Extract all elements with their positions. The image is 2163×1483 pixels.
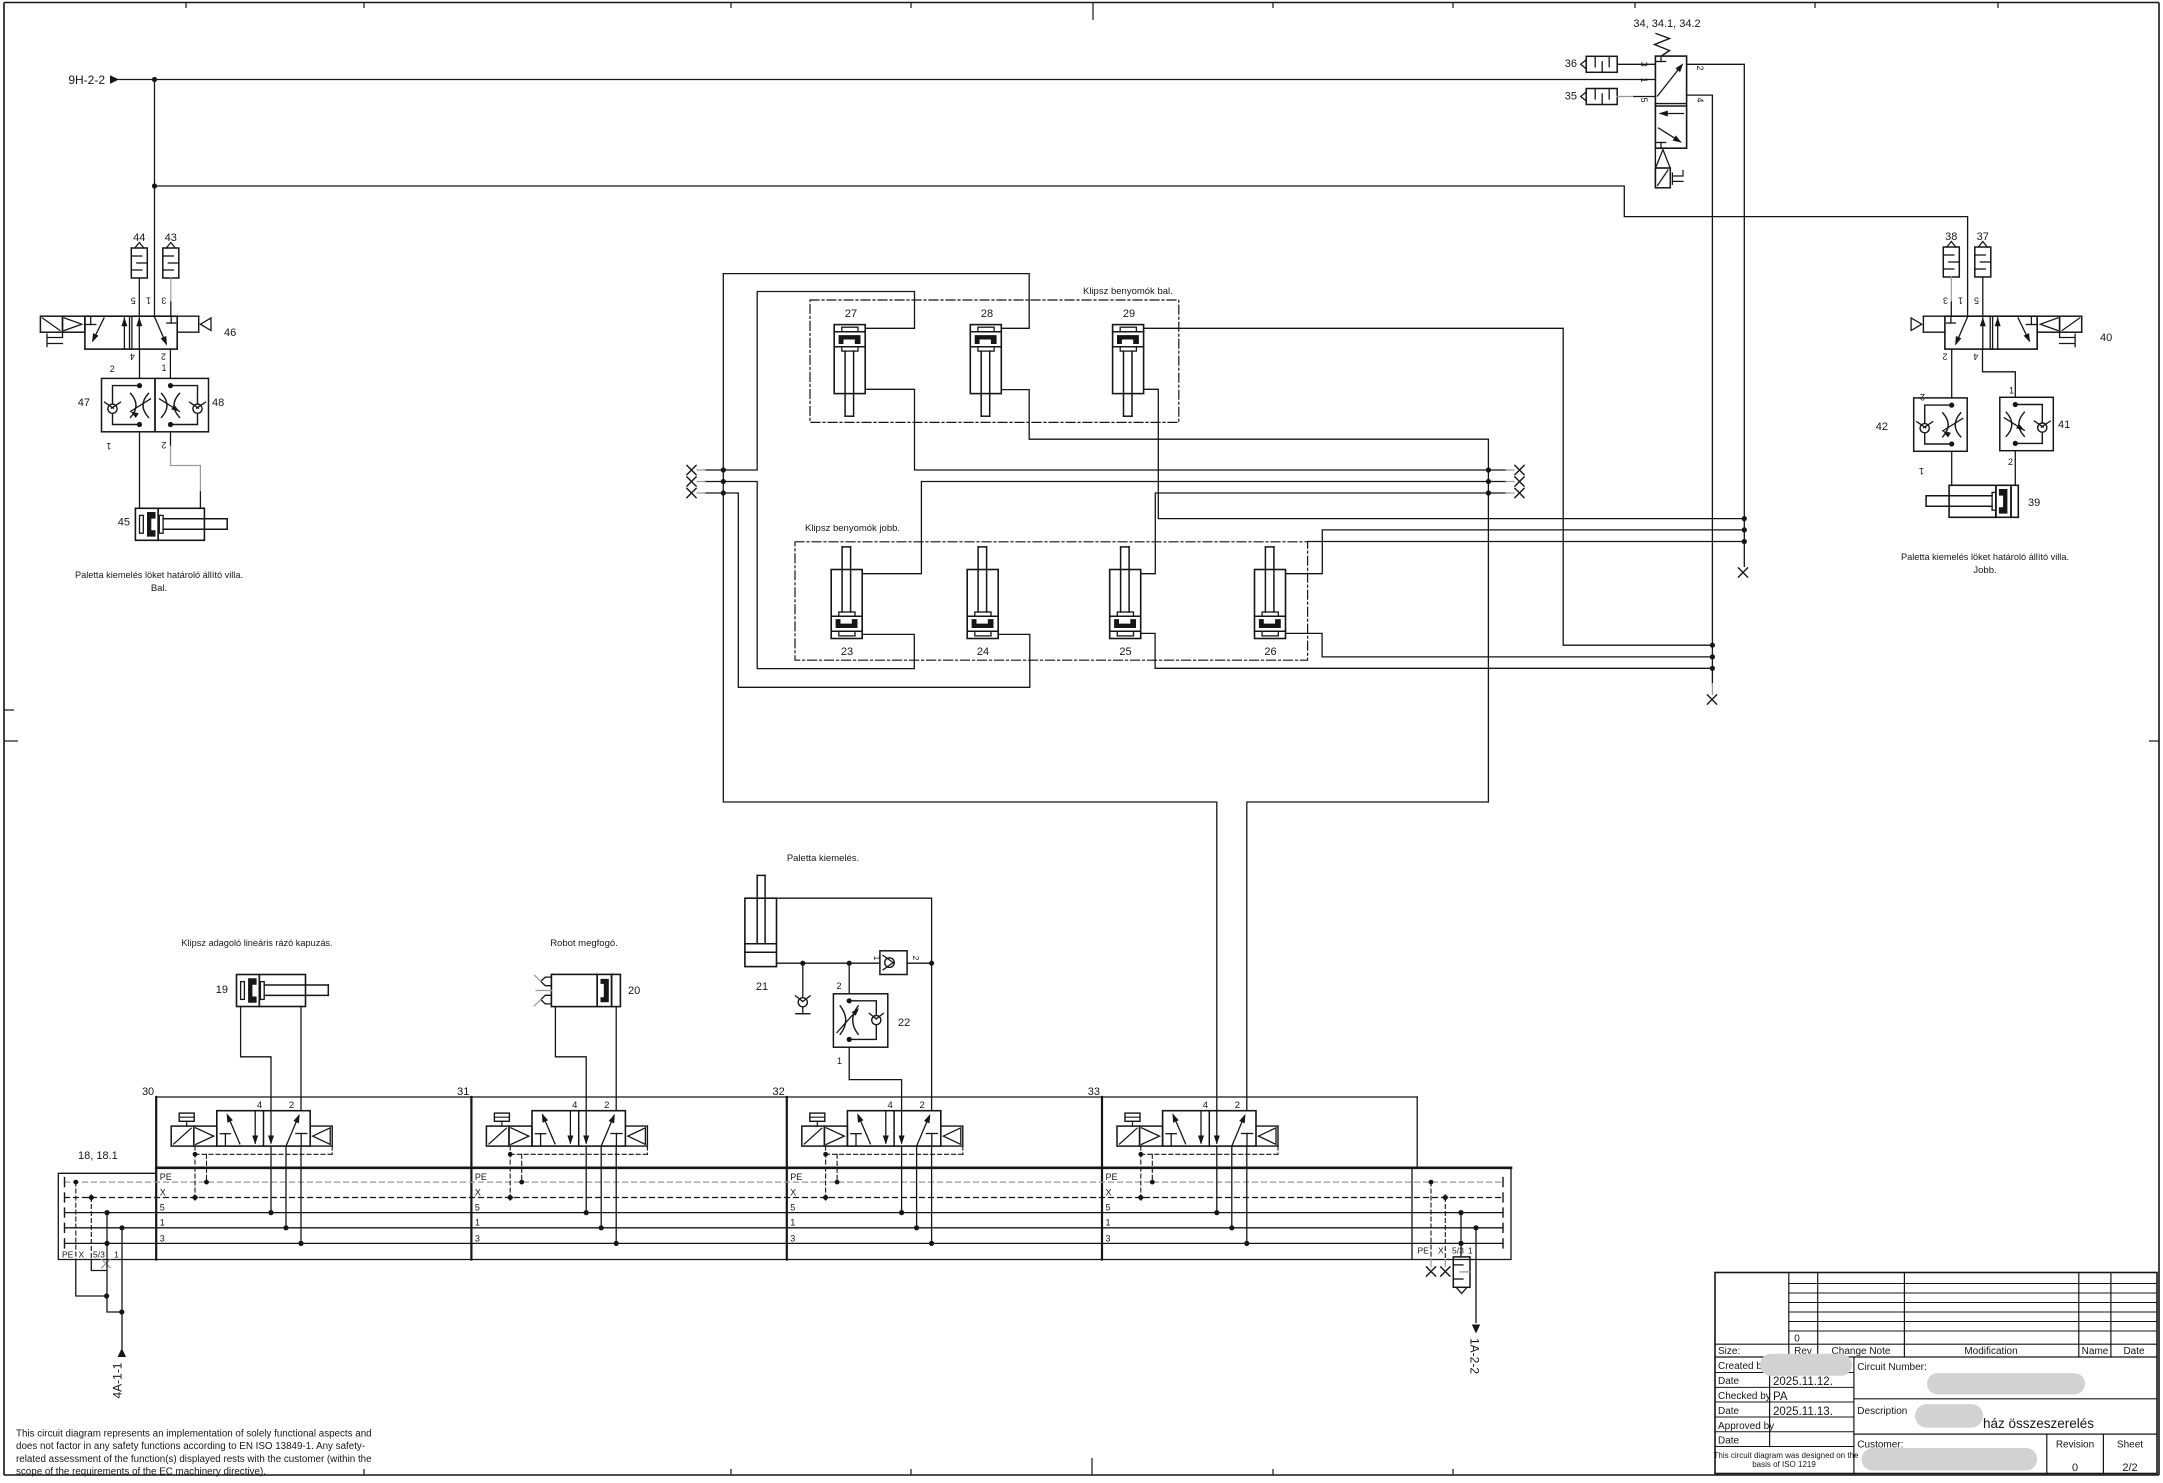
wire cylinder 25 top port to X-row 3	[1141, 493, 1488, 574]
cylinder 24	[967, 570, 998, 639]
svg-text:does not factor in any safety: does not factor in any safety functions …	[16, 1441, 365, 1452]
svg-text:22: 22	[898, 1017, 910, 1029]
wire main supply bus y=79.5	[119, 79, 1655, 81]
svg-text:Paletta kiemelés löket határol: Paletta kiemelés löket határoló állító v…	[75, 570, 243, 580]
svg-text:1: 1	[2009, 386, 2014, 396]
valve to rail drops	[901, 1146, 903, 1213]
svg-text:2025.11.13.: 2025.11.13.	[1773, 1406, 1833, 1418]
svg-text:1: 1	[162, 363, 167, 373]
title block outer	[1715, 1273, 2157, 1474]
svg-text:21: 21	[756, 981, 768, 993]
svg-text:scope of the requirements of t: scope of the requirements of the EC mach…	[16, 1467, 266, 1478]
svg-text:Sheet: Sheet	[2117, 1440, 2143, 1451]
svg-text:5: 5	[475, 1203, 480, 1213]
wire silencer 35 to port 5 (gray)	[1617, 96, 1634, 98]
svg-text:3: 3	[161, 296, 166, 306]
X mark at 5/3 crossing	[102, 1259, 110, 1267]
plug X marks right end	[1426, 1267, 1435, 1276]
svg-text:32: 32	[773, 1086, 785, 1098]
wire cylinder 26 top port	[1286, 530, 1744, 574]
svg-text:Klipsz benyomók jobb.: Klipsz benyomók jobb.	[805, 523, 900, 534]
svg-text:Checked by: Checked by	[1718, 1391, 1771, 1402]
svg-text:31: 31	[457, 1086, 469, 1098]
silencer 38	[1947, 242, 1956, 248]
svg-text:1: 1	[837, 1056, 842, 1066]
svg-text:1: 1	[1919, 466, 1924, 476]
svg-text:X: X	[475, 1187, 481, 1197]
svg-text:39: 39	[2028, 497, 2040, 509]
svg-text:33: 33	[1088, 1086, 1100, 1098]
svg-text:2: 2	[920, 1100, 925, 1111]
wire cylinder 21 top port to valve 32 port 2	[777, 898, 932, 1110]
svg-text:PE: PE	[160, 1172, 172, 1182]
left end 1 drop	[121, 1228, 123, 1260]
valve 46 (5/2 solenoid valve, rotated)	[40, 316, 211, 349]
pilot triangle	[824, 1126, 847, 1146]
wire flow 48 to cylinder 45 rod port (gray elbow)	[170, 432, 172, 446]
wire valve 34 port 4 to junction column x=1712	[1687, 95, 1713, 684]
svg-text:1: 1	[1106, 1218, 1111, 1228]
svg-text:2: 2	[1942, 352, 1947, 362]
svg-text:2: 2	[1920, 392, 1925, 402]
cylinder 45	[135, 508, 158, 540]
svg-text:1: 1	[1958, 296, 1963, 306]
svg-text:Date: Date	[2123, 1346, 2145, 1357]
dash-dot group box Klipsz benyomók jobb	[795, 542, 1308, 660]
cylinder 28	[970, 325, 1001, 394]
pilot dashed lines	[1140, 1146, 1142, 1197]
cylinder 29	[1113, 325, 1144, 394]
wire cylinder 27 top port loop	[723, 292, 914, 471]
svg-text:1: 1	[160, 1218, 165, 1228]
svg-text:0: 0	[2072, 1462, 2078, 1474]
svg-text:2: 2	[161, 440, 166, 450]
svg-text:0: 0	[1794, 1334, 1800, 1345]
arrow 9H-2-2	[110, 75, 119, 83]
flow control valve 22	[848, 963, 850, 994]
svg-text:1: 1	[790, 1218, 795, 1228]
svg-text:2/2: 2/2	[2122, 1462, 2137, 1474]
pilot dashed lines	[825, 1146, 827, 1197]
svg-text:X: X	[1438, 1246, 1444, 1256]
junction	[152, 183, 157, 188]
svg-text:35: 35	[1565, 91, 1577, 103]
svg-text:3: 3	[475, 1233, 480, 1243]
svg-text:PE: PE	[1418, 1246, 1430, 1256]
connection X marks right bus	[1488, 469, 1506, 471]
solenoid	[486, 1126, 509, 1146]
svg-text:44: 44	[133, 232, 145, 244]
connection X marks left bus	[705, 469, 723, 471]
svg-text:27: 27	[845, 308, 857, 320]
manual override	[1125, 1113, 1140, 1121]
svg-text:2: 2	[110, 364, 115, 374]
frame tick marks left/right	[4, 709, 14, 711]
wire silencer 36 to port 3	[1617, 63, 1655, 65]
svg-text:26: 26	[1264, 646, 1276, 658]
exhaust port block	[1256, 1125, 1278, 1127]
wire flow 47 to cylinder 45 cap port	[139, 432, 141, 509]
wire cylinder 21 bottom port	[777, 962, 880, 964]
redaction blobs	[1760, 1354, 1852, 1376]
wire silencer 38 to valve 40 port 3 (gray)	[1950, 277, 1952, 302]
svg-text:3: 3	[160, 1233, 165, 1243]
manifold top bold line	[156, 1167, 1511, 1170]
svg-text:1: 1	[475, 1218, 480, 1228]
svg-text:Revision: Revision	[2056, 1440, 2094, 1451]
svg-text:Klipsz adagoló lineáris rázó k: Klipsz adagoló lineáris rázó kapuzás.	[181, 938, 332, 948]
wire cylinder 19 rod port to valve 30 port 2	[300, 1007, 302, 1111]
svg-text:5: 5	[790, 1203, 795, 1213]
svg-text:2: 2	[836, 981, 841, 991]
plug X below port4 column	[1707, 695, 1716, 704]
inline check valve right of cylinder 21	[880, 951, 907, 975]
svg-text:20: 20	[628, 985, 640, 997]
svg-text:41: 41	[2058, 419, 2070, 431]
wire drop to valve 46 port 1	[154, 80, 156, 317]
silencer 44	[135, 243, 144, 249]
valve cell boxes	[155, 1097, 157, 1260]
wire cylinder 27 bottom port to X-row 1	[866, 389, 1489, 470]
dash-dot group box Klipsz benyomók bal	[810, 300, 1179, 422]
pilot dashed lines	[194, 1146, 196, 1197]
valve to rail drops	[270, 1146, 272, 1213]
svg-text:3: 3	[1639, 62, 1649, 67]
svg-text:Date: Date	[1718, 1436, 1740, 1447]
svg-text:2025.11.12.: 2025.11.12.	[1773, 1376, 1833, 1388]
valve 34 body	[1655, 56, 1686, 148]
wire cylinder 28 bottom port down to valve 33 port 2	[1002, 390, 1489, 1111]
svg-text:29: 29	[1123, 308, 1135, 320]
right end rail junctions	[1458, 1210, 1463, 1215]
wire cylinder 23 bottom port loop	[723, 482, 914, 669]
manual override	[810, 1113, 825, 1121]
svg-text:36: 36	[1565, 58, 1577, 70]
wire valve 22 to valve 32 port 4	[849, 1047, 901, 1111]
svg-text:This circuit diagram was desig: This circuit diagram was designed on the	[1714, 1451, 1860, 1460]
svg-text:42: 42	[1876, 421, 1888, 433]
valve 34 manual override	[1672, 171, 1683, 185]
solenoid	[171, 1126, 194, 1146]
wire supply column x=723 down to valve 33 port 4	[723, 274, 1217, 1111]
valve to rail drops	[585, 1146, 587, 1213]
svg-text:46: 46	[224, 327, 236, 339]
pilot triangle	[194, 1126, 217, 1146]
svg-text:18, 18.1: 18, 18.1	[78, 1150, 118, 1162]
svg-text:3: 3	[1943, 296, 1948, 306]
wire valve 40 port 4 elbow to flow 41	[1983, 349, 2016, 397]
junction	[152, 77, 157, 82]
svg-text:5/3: 5/3	[1452, 1246, 1464, 1256]
left end 5/3 drop	[106, 1213, 108, 1260]
valve body	[1163, 1111, 1256, 1146]
rail PE (gray dashed)	[65, 1181, 1504, 1183]
svg-text:1: 1	[146, 296, 151, 306]
svg-text:Description: Description	[1857, 1406, 1907, 1417]
svg-text:34, 34.1, 34.2: 34, 34.1, 34.2	[1633, 18, 1700, 30]
svg-text:Robot megfogó.: Robot megfogó.	[550, 938, 618, 949]
flow control valve 47	[102, 378, 156, 431]
svg-text:Modification: Modification	[1964, 1346, 2017, 1357]
manifold rail box outline	[58, 1168, 1511, 1259]
spring return of valve 34	[1655, 34, 1670, 57]
svg-text:1: 1	[872, 956, 882, 961]
cylinder 25	[1110, 570, 1141, 639]
svg-text:1: 1	[106, 441, 111, 451]
svg-text:45: 45	[118, 517, 130, 529]
svg-text:Date: Date	[1718, 1406, 1740, 1417]
svg-text:5: 5	[131, 296, 136, 306]
svg-text:PE: PE	[790, 1172, 802, 1182]
flow control valve 48	[155, 378, 209, 431]
svg-text:Name: Name	[2082, 1346, 2109, 1357]
svg-text:4: 4	[1973, 352, 1978, 362]
exhaust port block	[941, 1125, 963, 1127]
svg-text:2: 2	[289, 1100, 294, 1111]
pilot triangle	[1140, 1126, 1163, 1146]
wire silencer 44 to valve 46 port 5	[138, 278, 140, 316]
wire cylinder 29 bottom port to valve 34 port 2 net	[1144, 389, 1745, 518]
svg-text:5: 5	[1106, 1203, 1111, 1213]
svg-text:23: 23	[841, 646, 853, 658]
svg-text:PE: PE	[1106, 1172, 1118, 1182]
svg-text:24: 24	[977, 646, 989, 658]
silencer 43	[166, 243, 175, 249]
gripper 20	[551, 974, 597, 1006]
cylinder 39	[1949, 485, 1996, 517]
revision table	[1788, 1273, 1790, 1358]
svg-text:9H-2-2: 9H-2-2	[68, 73, 105, 87]
svg-text:X: X	[160, 1187, 166, 1197]
wire valve 46 port 2 down	[169, 349, 171, 378]
valve to rail drops	[1216, 1146, 1218, 1213]
svg-text:47: 47	[78, 397, 90, 409]
wire second bus y=186 to valve 40 port 1	[155, 186, 1968, 316]
svg-text:25: 25	[1119, 646, 1131, 658]
rail 3	[65, 1242, 1504, 1244]
wire flow 41 to cylinder 39	[2014, 451, 2016, 486]
flow control valve 42	[1914, 398, 1968, 451]
svg-text:ház összeszerelés: ház összeszerelés	[1983, 1416, 2094, 1431]
rail X (dashed)	[65, 1197, 1504, 1199]
wire silencer 43 to valve 46 port 3 (gray)	[170, 278, 172, 302]
manual override	[179, 1113, 194, 1121]
svg-text:4: 4	[130, 352, 135, 362]
silencer 36	[1581, 60, 1587, 69]
svg-text:2: 2	[911, 956, 921, 961]
wire check valve to port2 column	[907, 962, 932, 964]
left end X drop	[90, 1198, 92, 1260]
silencer 35	[1581, 92, 1587, 101]
svg-text:38: 38	[1945, 231, 1957, 243]
cylinder 19	[237, 975, 260, 1007]
svg-text:3: 3	[1106, 1233, 1111, 1243]
arrow 1A-2-2	[1472, 1325, 1480, 1334]
svg-text:2: 2	[161, 352, 166, 362]
right end PE/X dashed drops	[1430, 1182, 1432, 1259]
svg-text:3: 3	[790, 1233, 795, 1243]
wire valve 46 port 4 down	[139, 349, 141, 378]
svg-text:48: 48	[212, 397, 224, 409]
svg-text:Size:: Size:	[1718, 1346, 1740, 1357]
exhaust port block	[310, 1125, 332, 1127]
solenoid	[1117, 1126, 1140, 1146]
svg-text:1: 1	[1639, 77, 1649, 82]
wire flow 42 to cylinder 39	[1951, 451, 1953, 485]
valve 40 (5/2 solenoid valve, mirrored)	[1911, 316, 2082, 349]
pilot dashed lines	[509, 1146, 511, 1197]
pilot triangle	[509, 1126, 532, 1146]
svg-text:Bal.: Bal.	[151, 583, 167, 594]
silencer 37	[1978, 242, 1987, 248]
flow control valve 41	[2000, 397, 2054, 450]
svg-text:5: 5	[1974, 296, 1979, 306]
rail end ticks	[64, 1178, 66, 1187]
svg-text:X: X	[79, 1250, 85, 1260]
wire cylinder 29 top port to valve 34 port 4 net	[1144, 328, 1713, 645]
svg-text:Created by: Created by	[1718, 1361, 1767, 1372]
left end PE drop	[75, 1182, 77, 1259]
svg-text:5: 5	[1639, 97, 1649, 102]
wire row to valve 34 port2 net from box corner	[1308, 541, 1745, 543]
svg-text:X: X	[1106, 1187, 1112, 1197]
svg-text:Paletta kiemelés löket határol: Paletta kiemelés löket határoló állító v…	[1901, 552, 2069, 562]
svg-text:2: 2	[1235, 1100, 1240, 1111]
svg-text:This circuit diagram represent: This circuit diagram represents an imple…	[16, 1429, 372, 1440]
wire silencer 37 to valve 40 port 5	[1982, 277, 1984, 316]
arrow 4A-1-1	[118, 1348, 126, 1357]
info rows left	[1853, 1357, 1855, 1474]
svg-text:X: X	[790, 1187, 796, 1197]
svg-text:43: 43	[165, 232, 177, 244]
plug X below port2 column	[1738, 568, 1747, 577]
svg-text:4: 4	[1203, 1100, 1208, 1111]
rail 1	[65, 1227, 1504, 1229]
exhaust port block	[625, 1125, 647, 1127]
wire cylinder 26 bottom port	[1286, 633, 1712, 657]
svg-text:2: 2	[2008, 457, 2013, 467]
svg-text:5: 5	[160, 1203, 165, 1213]
valve body	[532, 1111, 625, 1146]
valve body	[217, 1111, 310, 1146]
svg-text:Jobb.: Jobb.	[1973, 565, 1996, 576]
wire cylinder 25 bottom port	[1141, 633, 1712, 668]
drain check valve under cylinder 21	[802, 963, 804, 997]
svg-text:Paletta kiemelés.: Paletta kiemelés.	[787, 853, 859, 864]
valve 34 upper position: T + arrow to port 2	[1660, 56, 1662, 61]
manual override	[494, 1113, 509, 1121]
wire cylinder 28 top port from supply column	[723, 274, 1029, 329]
wire cylinder 23 top port to X-row 2	[863, 482, 1489, 574]
svg-text:PA: PA	[1773, 1391, 1788, 1403]
svg-text:2: 2	[604, 1100, 609, 1111]
svg-text:40: 40	[2100, 332, 2112, 344]
gripper 20 jaws	[541, 977, 552, 986]
wire valve 34 port 2 to junction column x=1744	[1687, 64, 1745, 566]
cylinder 23	[831, 570, 862, 639]
svg-text:basis of ISO 1219: basis of ISO 1219	[1752, 1460, 1816, 1469]
svg-text:Klipsz benyomók bal.: Klipsz benyomók bal.	[1083, 286, 1173, 297]
svg-text:19: 19	[216, 984, 228, 996]
svg-text:1: 1	[114, 1250, 119, 1260]
wire valve 40 port 2 down to flow 42	[1951, 349, 1953, 398]
valve 34 solenoid	[1655, 168, 1670, 188]
svg-text:Approved by: Approved by	[1718, 1421, 1774, 1432]
wire cylinder 24 bottom port loop	[723, 493, 1030, 687]
wire cylinder 19 cap port to valve 30 port 4	[241, 1007, 271, 1111]
svg-text:30: 30	[142, 1086, 154, 1098]
svg-text:4: 4	[257, 1100, 262, 1111]
cylinder 21 (vertical, rod up)	[745, 898, 777, 966]
left cascade wiring to 4A-1-1	[76, 1260, 107, 1297]
valve 34 pilot triangle	[1656, 150, 1671, 169]
svg-text:4: 4	[888, 1100, 893, 1111]
svg-text:PE: PE	[62, 1250, 74, 1260]
svg-text:Date: Date	[1718, 1376, 1740, 1387]
svg-text:2: 2	[1695, 65, 1705, 70]
frame tick marks top	[185, 3, 187, 9]
wire gripper 20 to valve 31 port 4	[555, 1007, 586, 1111]
svg-text:PE: PE	[475, 1172, 487, 1182]
svg-text:Circuit Number:: Circuit Number:	[1857, 1362, 1926, 1373]
svg-text:4A-1-1: 4A-1-1	[111, 1362, 125, 1398]
cylinder 26	[1255, 570, 1286, 639]
svg-text:related assessment of the func: related assessment of the function(s) di…	[16, 1454, 372, 1465]
svg-text:4: 4	[572, 1100, 577, 1111]
exhaust silencer right end	[1453, 1257, 1470, 1287]
frame tick marks bottom	[363, 1469, 365, 1475]
valve body	[847, 1111, 940, 1146]
svg-text:1: 1	[1468, 1246, 1473, 1256]
rail 5	[65, 1212, 1504, 1214]
svg-text:28: 28	[981, 308, 993, 320]
svg-text:37: 37	[1977, 231, 1989, 243]
solenoid	[802, 1126, 825, 1146]
svg-text:5/3: 5/3	[93, 1250, 105, 1260]
svg-text:1A-2-2: 1A-2-2	[1468, 1338, 1482, 1374]
svg-text:4: 4	[1695, 97, 1705, 102]
cylinder 27	[834, 325, 865, 394]
wire gripper 20 to valve 31 port 2	[615, 1007, 617, 1111]
valve 34 lower position: arrows	[1661, 113, 1684, 115]
